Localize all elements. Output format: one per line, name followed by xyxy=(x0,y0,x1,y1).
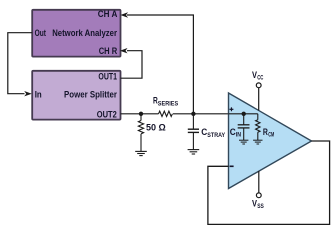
svg-text:OUT1: OUT1 xyxy=(98,71,117,81)
svg-text:IN: IN xyxy=(236,133,241,139)
minus input symbol xyxy=(230,165,234,167)
wire Out to In (left loop) xyxy=(8,33,32,94)
label RSERIES xyxy=(153,96,178,108)
power splitter box xyxy=(32,71,120,120)
wire node to op-amp + input xyxy=(193,113,228,115)
arrow into CH R xyxy=(120,48,128,53)
wire OUT2 signal line xyxy=(121,113,159,115)
label VSS xyxy=(252,199,264,211)
capacitor CSTRAY xyxy=(188,114,199,150)
op-amp U1 xyxy=(229,93,312,189)
svg-text:Network Analyzer: Network Analyzer xyxy=(52,28,117,38)
wire OUT1 to CH R xyxy=(121,51,143,78)
wire inside op-amp to CIN/RCM xyxy=(229,113,258,115)
wire RSERIES to node xyxy=(173,113,194,115)
ground under CIN xyxy=(239,140,248,144)
junction node CIN xyxy=(242,112,246,116)
label VCC xyxy=(252,70,264,82)
svg-text:STRAY: STRAY xyxy=(207,133,225,139)
ground under CSTRAY xyxy=(188,150,200,154)
junction node at 50 ohm xyxy=(139,112,143,116)
svg-text:CC: CC xyxy=(257,75,264,81)
VCC terminal xyxy=(256,83,261,111)
plus input symbol xyxy=(230,107,234,111)
arrow into CH A xyxy=(120,12,128,17)
label CIN xyxy=(230,127,241,139)
junction node at CSTRAY xyxy=(191,112,195,116)
arrow into In xyxy=(24,91,32,96)
label RCM xyxy=(263,127,274,139)
svg-text:OUT2: OUT2 xyxy=(97,109,117,119)
resistor RCM xyxy=(256,114,260,140)
label CSTRAY xyxy=(201,127,225,139)
feedback wire output to minus input xyxy=(208,141,330,224)
network analyzer box xyxy=(32,10,120,57)
VSS terminal xyxy=(256,171,261,198)
svg-text:SERIES: SERIES xyxy=(158,101,178,107)
svg-text:CH A: CH A xyxy=(98,9,118,19)
svg-text:50 Ω: 50 Ω xyxy=(146,123,166,133)
svg-text:SS: SS xyxy=(257,204,264,210)
svg-text:Power Splitter: Power Splitter xyxy=(64,89,117,99)
ground under 50 ohm xyxy=(135,151,147,155)
wire CH A probe xyxy=(127,15,193,114)
svg-text:CH R: CH R xyxy=(99,46,118,56)
svg-text:CM: CM xyxy=(268,133,274,139)
capacitor CIN xyxy=(238,114,250,140)
resistor 50 ohm xyxy=(138,114,143,152)
resistor RSERIES xyxy=(159,111,173,116)
svg-text:Out: Out xyxy=(35,28,46,38)
ground under RCM xyxy=(253,140,262,144)
svg-text:In: In xyxy=(35,89,42,99)
